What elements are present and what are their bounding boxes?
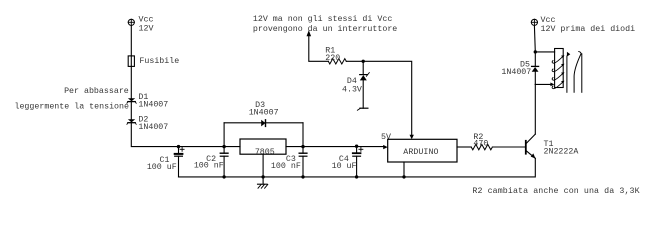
arrow from interruttore note xyxy=(307,30,312,36)
arrow into ARDUINO top pin xyxy=(410,135,414,140)
capacitor C2 100 nF xyxy=(220,147,228,177)
wire emitter down to ground rail xyxy=(179,158,536,177)
svg-text:1N4007: 1N4007 xyxy=(138,123,168,132)
node C4 junction xyxy=(355,145,358,148)
svg-text:220: 220 xyxy=(325,54,340,63)
svg-text:100 nF: 100 nF xyxy=(271,162,301,171)
wire ARDUINO ground pin xyxy=(403,162,405,177)
label T1 2N2222A xyxy=(544,140,579,157)
diode D1 1N4007 xyxy=(127,98,136,103)
label Vcc 12V (left) xyxy=(139,16,154,34)
wire Vcc branch down to D5 xyxy=(534,52,536,67)
svg-text:12V: 12V xyxy=(139,25,154,34)
label R2 470 xyxy=(473,133,488,149)
ground symbol under 7805 xyxy=(258,184,268,188)
label D2 1N4007 xyxy=(138,115,168,131)
svg-text:1N4007: 1N4007 xyxy=(138,100,168,109)
label D1 1N4007 xyxy=(138,93,168,109)
wire R1 to corner above ARDUINO xyxy=(346,61,411,135)
node C2 / D3 bypass junction xyxy=(222,145,225,148)
relay fixed contact line xyxy=(581,54,583,93)
wire Vcc to fuse xyxy=(130,25,132,56)
svg-text:4.3V: 4.3V xyxy=(342,85,362,94)
svg-text:Vcc: Vcc xyxy=(139,16,154,25)
wire D3 bypass top xyxy=(224,122,303,124)
block ARDUINO xyxy=(388,139,457,162)
node C1 junction xyxy=(177,145,180,148)
node 7805 ground on bottom rail xyxy=(261,175,264,178)
regulator U1 7805 xyxy=(240,139,286,154)
wire Vcc down to coil node xyxy=(533,25,536,52)
node C3 bottom on rail xyxy=(301,175,304,178)
ground terminal under D4 xyxy=(357,108,368,110)
svg-text:100 uF: 100 uF xyxy=(147,163,177,172)
wire R2 to base xyxy=(492,146,525,148)
svg-text:12V prima dei diodi: 12V prima dei diodi xyxy=(541,24,636,34)
wire D3 bypass right leg xyxy=(302,123,304,147)
label D5 1N4007 xyxy=(501,60,531,77)
power symbol Vcc (right) xyxy=(531,19,537,25)
diode D2 1N4007 xyxy=(127,119,136,124)
node C3 junction xyxy=(301,145,304,148)
svg-text:7805: 7805 xyxy=(255,148,275,157)
svg-text:2N2222A: 2N2222A xyxy=(544,148,579,157)
wire 7805 output rail xyxy=(286,146,384,148)
wire D5 to coil bottom node xyxy=(534,72,536,85)
svg-text:provengono da un interruttore: provengono da un interruttore xyxy=(253,24,397,34)
label R1 220 xyxy=(325,46,340,63)
svg-text:Per abbassare: Per abbassare xyxy=(64,86,129,96)
wire fuse to D1 xyxy=(130,66,132,98)
svg-text:Vcc: Vcc xyxy=(541,16,556,25)
capacitor C3 100 nF xyxy=(299,147,307,177)
label C4 10 uF xyxy=(332,155,357,171)
capacitor C1 100 uF electrolytic xyxy=(175,147,184,177)
wire to relay coil bottom with arrow xyxy=(535,83,551,85)
label 5V xyxy=(381,133,391,142)
label D4 4.3V xyxy=(342,77,362,94)
label D3 1N4007 xyxy=(249,101,279,117)
label Vcc 12V prima dei diodi xyxy=(541,16,636,34)
node C2 bottom on rail xyxy=(222,175,225,178)
label C3 100 nF xyxy=(271,155,301,171)
svg-text:1N4007: 1N4007 xyxy=(501,68,531,77)
wire junction to D4 xyxy=(362,61,364,74)
node R1/D4 junction xyxy=(362,60,365,63)
wire D3 bypass left leg xyxy=(223,123,225,147)
relay contact blade (curved) xyxy=(574,54,581,93)
wire to relay coil top xyxy=(535,51,554,53)
label ARDUINO xyxy=(403,148,438,157)
note 12V ma non gli stessi di Vcc provengono da un interruttore xyxy=(253,14,397,34)
transistor T1 2N2222A xyxy=(526,134,536,158)
zener D4 4.3V xyxy=(360,73,370,109)
label 7805 xyxy=(255,148,275,157)
note Per abbassare leggermente la tensione xyxy=(14,86,129,112)
relay coil winding turns xyxy=(552,55,564,88)
relay contact hook xyxy=(579,52,581,55)
svg-text:100 nF: 100 nF xyxy=(194,162,224,171)
resistor R1 220 xyxy=(328,59,346,64)
power symbol Vcc 12V (left) xyxy=(128,19,134,25)
fuse F1 Fusibile xyxy=(128,56,134,67)
svg-text:ARDUINO: ARDUINO xyxy=(403,148,438,157)
node ARDUINO ground on rail xyxy=(402,175,405,178)
svg-text:12V ma non gli stessi di Vcc: 12V ma non gli stessi di Vcc xyxy=(253,14,392,24)
capacitor C4 10 uF electrolytic xyxy=(353,147,363,177)
wire collector up xyxy=(534,84,536,134)
svg-text:Fusibile: Fusibile xyxy=(139,56,179,66)
node coil top junction xyxy=(534,50,537,53)
node C4 bottom on rail xyxy=(355,175,358,178)
svg-text:470: 470 xyxy=(473,140,488,149)
resistor R2 470 xyxy=(471,144,492,149)
arrow into ARDUINO 5V pin xyxy=(383,145,388,149)
svg-text:1N4007: 1N4007 xyxy=(249,108,279,117)
svg-text:leggermente la tensione: leggermente la tensione xyxy=(14,101,129,111)
wire 7805 ground pin xyxy=(262,154,264,184)
relay armature line with flag xyxy=(567,52,570,93)
wire ARDUINO out to R2 xyxy=(457,146,471,148)
relay coil K1 body xyxy=(555,49,564,88)
label C2 100 nF xyxy=(194,155,224,171)
diode D5 1N4007 (flyback) xyxy=(532,66,539,71)
svg-text:10 uF: 10 uF xyxy=(332,162,357,171)
wire D1 to D2 xyxy=(130,102,132,120)
svg-text:R2 cambiata anche con una da 3: R2 cambiata anche con una da 3,3K xyxy=(472,186,639,196)
wire switch feed down and to R1 xyxy=(309,34,329,61)
label Fusibile xyxy=(139,56,179,66)
wire D2 down to input rail corner xyxy=(131,123,240,147)
label C1 100 uF xyxy=(147,156,177,172)
diode D3 1N4007 xyxy=(261,120,265,127)
svg-text:5V: 5V xyxy=(381,133,391,142)
note R2 cambiata anche con una da 3,3K xyxy=(472,186,639,196)
